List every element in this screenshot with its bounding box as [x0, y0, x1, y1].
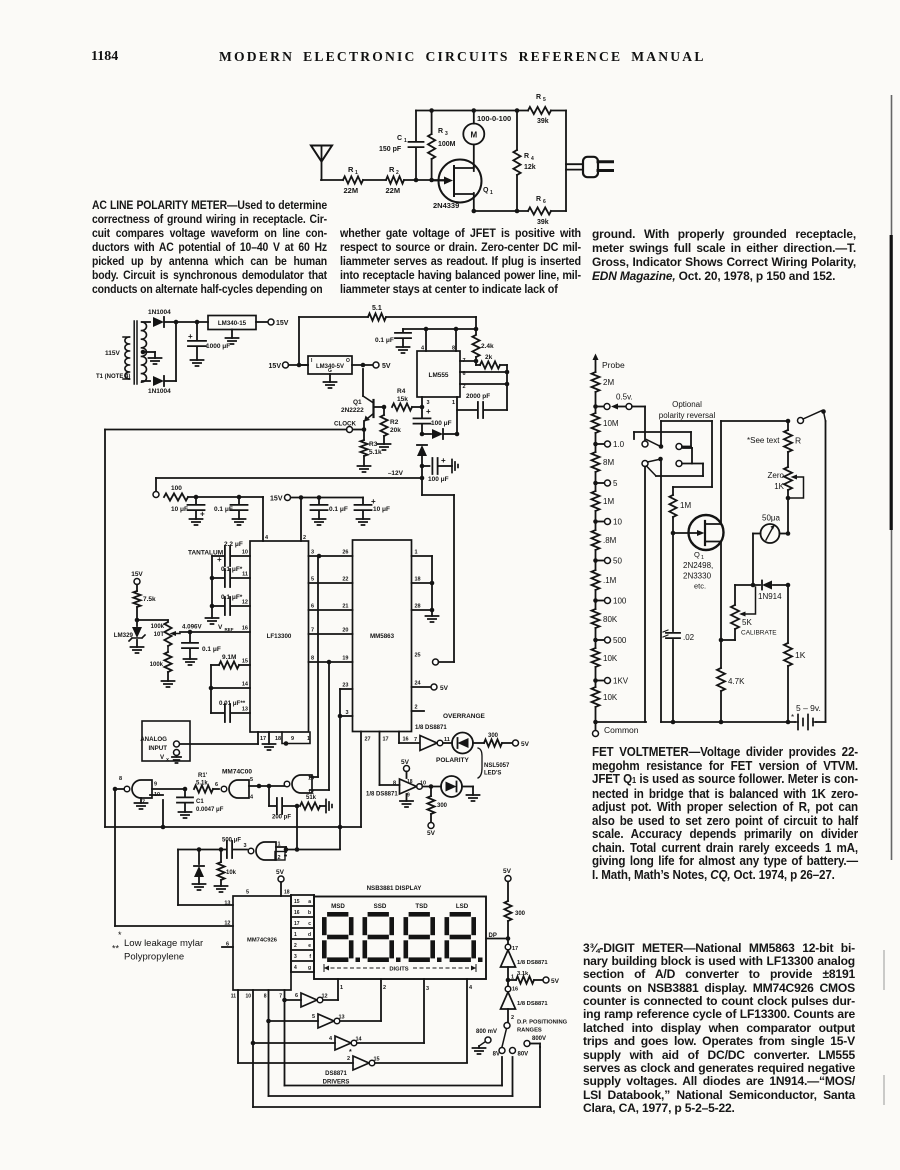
resistor 100 [164, 485, 188, 501]
MM74C926 pin 8 [264, 990, 271, 1096]
wire pin3 [420, 397, 425, 409]
wire [142, 322, 150, 381]
LF13300 pin 8 [311, 656, 314, 662]
wire range bus 1 [285, 1057, 503, 1086]
label overrange [443, 713, 486, 720]
svg-text:1.0: 1.0 [613, 440, 625, 449]
svg-text:Q: Q [694, 550, 700, 559]
svg-text:Q: Q [483, 187, 489, 194]
gate G3 MM74C00 [284, 775, 329, 796]
svg-text:1/8 DS8871: 1/8 DS8871 [366, 792, 398, 798]
svg-text:LM555: LM555 [429, 372, 449, 379]
svg-text:28: 28 [415, 604, 421, 610]
svg-text:26: 26 [342, 550, 348, 556]
digit 4 [445, 912, 483, 962]
diode D3 [420, 429, 460, 439]
resistor R4 15k [392, 388, 422, 411]
svg-text:500: 500 [613, 636, 627, 645]
LF13300 pin 9 [291, 736, 294, 742]
svg-text:0.5v.: 0.5v. [616, 393, 633, 402]
svg-text:10 μF: 10 μF [373, 506, 390, 513]
inverter U6 1/8 DS8871 [366, 779, 426, 807]
svg-text:100: 100 [171, 485, 182, 492]
wire [176, 320, 208, 325]
page number [91, 49, 118, 65]
wire common right [661, 720, 795, 725]
svg-text:d: d [308, 932, 311, 938]
wire pins 23 3 [338, 689, 353, 849]
svg-text:16: 16 [403, 737, 409, 743]
meter 50ua [753, 514, 790, 544]
svg-text:4: 4 [531, 156, 534, 162]
IC U7 MM74C926 [233, 896, 291, 990]
svg-text:5.1: 5.1 [372, 305, 382, 312]
capacitor 0.1uF [375, 329, 411, 353]
svg-text:100 μF: 100 μF [431, 420, 452, 427]
potentiometer 5K calibrate [721, 585, 777, 640]
svg-text:8M: 8M [603, 458, 614, 467]
svg-text:.1M: .1M [603, 576, 617, 585]
svg-text:100M: 100M [438, 141, 456, 148]
svg-text:22M: 22M [344, 186, 359, 195]
wire interconnect [309, 555, 353, 557]
IC U3 LF13300 [250, 535, 309, 732]
svg-text:17: 17 [383, 737, 389, 743]
MM5863 pin 3 [345, 710, 348, 716]
capacitor 0.1uF a [214, 497, 248, 525]
resistor 2k [476, 354, 507, 369]
svg-text:25: 25 [415, 653, 421, 659]
svg-text:100k: 100k [151, 624, 165, 630]
tap 500 [593, 636, 627, 645]
svg-text:18: 18 [284, 890, 290, 896]
capacitor C1 [379, 111, 424, 181]
svg-text:R: R [536, 196, 541, 203]
LF13300 pin 7 [311, 628, 314, 634]
wire pin1 [456, 397, 458, 434]
switch battery [798, 409, 826, 722]
svg-text:10K: 10K [603, 654, 618, 663]
svg-text:MM74C926: MM74C926 [247, 938, 278, 944]
wire clock bus [105, 795, 361, 829]
svg-text:5V: 5V [521, 741, 530, 748]
svg-text:8: 8 [452, 346, 455, 352]
terminal 5V dp [503, 868, 512, 882]
capacitor 1000uF [188, 322, 230, 366]
driver G6 [285, 993, 339, 1007]
svg-text:150 pF: 150 pF [379, 146, 402, 153]
svg-text:16: 16 [242, 626, 248, 632]
terminal 15V [256, 319, 289, 327]
MM74C926 pin 5 [246, 890, 249, 896]
wire [475, 317, 477, 334]
wire chain [595, 392, 597, 722]
digit 3 [404, 912, 442, 962]
wire [423, 784, 442, 789]
svg-text:10T: 10T [154, 632, 165, 638]
svg-text:3: 3 [311, 550, 314, 556]
svg-text:ANALOG: ANALOG [140, 736, 167, 743]
svg-text:4: 4 [265, 535, 269, 541]
svg-text:R3: R3 [369, 441, 378, 448]
svg-text:LF13300: LF13300 [267, 633, 292, 640]
svg-text:10k: 10k [226, 870, 237, 876]
wire range bus 3 [253, 1047, 540, 1107]
MM74C926 pin 7 [279, 990, 287, 1086]
svg-text:16: 16 [294, 910, 300, 916]
MM5863 pin 24 [415, 681, 422, 687]
svg-text:etc.: etc. [694, 582, 706, 591]
wire [565, 111, 567, 212]
svg-text:9: 9 [154, 782, 157, 788]
wire source [719, 542, 724, 669]
LF13300 pin 5 [311, 577, 314, 583]
running head title [219, 49, 706, 65]
LF13300 pin 15 [242, 659, 248, 665]
svg-text:–12V: –12V [388, 470, 404, 477]
capacitor 10uF b [355, 497, 391, 525]
resistor R6 [528, 196, 566, 226]
svg-text:f: f [309, 954, 311, 960]
analog input Vx [140, 721, 190, 763]
segment line c [294, 921, 311, 927]
svg-text:+: + [426, 407, 431, 416]
wire VREF [180, 624, 250, 635]
svg-text:2N4339: 2N4339 [433, 201, 459, 210]
svg-text:15V: 15V [276, 320, 289, 327]
wire [174, 320, 179, 381]
wire ground bus [412, 556, 439, 622]
resistor 10K [592, 687, 618, 707]
segment line e [294, 943, 311, 949]
battery 5-9v [791, 703, 826, 730]
svg-text:.02: .02 [683, 633, 695, 642]
LF13300 pin 1 [307, 736, 310, 742]
wire pin 2 stub [412, 710, 425, 712]
svg-text:5.1k: 5.1k [196, 781, 208, 787]
svg-text:DS8871: DS8871 [325, 1071, 347, 1077]
LF13300 pin 16 [242, 626, 248, 632]
svg-text:50μa: 50μa [762, 514, 781, 523]
svg-text:4: 4 [329, 1036, 333, 1042]
segment line b [294, 910, 311, 916]
svg-text:2: 2 [347, 1056, 350, 1062]
svg-text:10K: 10K [603, 693, 618, 702]
resistor 4.7K [717, 668, 745, 722]
svg-text:2N3330: 2N3330 [683, 572, 712, 581]
svg-text:1N914: 1N914 [758, 592, 782, 601]
svg-text:13: 13 [242, 707, 248, 713]
svg-text:15V: 15V [131, 571, 143, 578]
wire range bus 2 [269, 1057, 513, 1096]
svg-text:1000 μF: 1000 μF [206, 343, 230, 350]
svg-text:g: g [308, 965, 311, 971]
regulator LM340-5V [299, 356, 352, 388]
capacitor 0.01uF** [211, 688, 250, 722]
svg-text:5K: 5K [742, 618, 752, 627]
svg-text:R1': R1' [198, 773, 208, 779]
antenna [311, 146, 332, 181]
svg-text:17: 17 [512, 946, 518, 952]
junction node [327, 660, 332, 665]
MM5863 pin 21 [342, 604, 348, 610]
svg-text:3: 3 [244, 843, 247, 849]
svg-text:100 μF: 100 μF [428, 476, 449, 483]
svg-text:M: M [470, 131, 477, 140]
svg-text:39k: 39k [537, 219, 549, 226]
LF13300 ground pins [263, 732, 311, 750]
svg-text:R: R [536, 94, 541, 101]
svg-text:2000 pF: 2000 pF [466, 393, 490, 400]
driver G4 [253, 1036, 424, 1056]
display pin 4 [467, 979, 473, 1063]
timer U2 LM555 [417, 329, 466, 406]
switch polarity A [634, 407, 712, 488]
tap 50 [593, 557, 622, 566]
svg-text:OVERRANGE: OVERRANGE [443, 713, 486, 720]
switch 0.5v [593, 393, 645, 410]
svg-text:1M: 1M [603, 497, 614, 506]
zener D5 LM329 [114, 618, 145, 653]
label digits arrow [324, 965, 476, 973]
capacitor 2.2uF tantalum [188, 541, 250, 566]
svg-text:12: 12 [242, 600, 248, 606]
MM5863 pin 27 [365, 737, 371, 743]
svg-text:NSB3881 DISPLAY: NSB3881 DISPLAY [367, 885, 423, 892]
svg-text:1K: 1K [795, 650, 806, 660]
svg-text:18: 18 [407, 779, 413, 785]
svg-text:300: 300 [437, 803, 448, 809]
wire [152, 787, 187, 792]
svg-text:+: + [441, 456, 446, 465]
svg-text:2N2498,: 2N2498, [683, 561, 713, 570]
MM5863 pin 22 [342, 577, 348, 583]
svg-text:+: + [371, 497, 376, 506]
capacitor 0.1uF b [311, 498, 348, 526]
resistor 80K [592, 609, 618, 628]
caption column 2 [340, 226, 581, 296]
svg-text:9.1M: 9.1M [222, 654, 236, 661]
svg-text:D.P. POSITIONING: D.P. POSITIONING [517, 1020, 568, 1026]
wire [209, 665, 214, 690]
resistor R1' 5.1k [194, 773, 219, 793]
svg-text:Common: Common [604, 725, 639, 735]
svg-text:RANGES: RANGES [517, 1028, 542, 1034]
wire gate5 node [286, 847, 340, 852]
label polarity [436, 757, 470, 764]
capacitor 2000pF [457, 393, 507, 418]
svg-text:Polypropylene: Polypropylene [124, 952, 184, 963]
wire top rail [416, 108, 528, 113]
digit 2 [363, 912, 401, 962]
svg-text:2.4k: 2.4k [481, 343, 494, 350]
MM74C926 pin 12 [224, 921, 230, 927]
caption column 3 [592, 227, 856, 283]
svg-text:1: 1 [490, 190, 493, 196]
svg-text:5: 5 [246, 890, 249, 896]
MM5863 pin 17 [383, 737, 389, 743]
svg-text:27: 27 [365, 737, 371, 743]
wire meter left [751, 534, 756, 588]
svg-text:14: 14 [356, 1037, 363, 1043]
svg-text:0.1 μF: 0.1 μF [375, 337, 394, 344]
resistor 300 a [484, 733, 530, 748]
svg-text:1: 1 [355, 170, 358, 176]
svg-text:1: 1 [404, 138, 407, 144]
wire pin7 [460, 357, 476, 365]
svg-text:7.5k: 7.5k [143, 596, 156, 603]
svg-text:14: 14 [242, 682, 249, 688]
LF13300 pin 13 [242, 707, 248, 713]
svg-text:15k: 15k [397, 396, 408, 403]
svg-text:1: 1 [294, 932, 297, 938]
driver G2b [238, 1056, 467, 1070]
svg-text:*See text: *See text [747, 436, 780, 445]
svg-text:*: * [118, 930, 122, 940]
svg-text:23: 23 [342, 683, 348, 689]
svg-text:polarity reversal: polarity reversal [659, 411, 716, 420]
svg-text:1: 1 [415, 550, 418, 556]
resistor 9.1M [211, 654, 250, 669]
label footnote mylar [118, 930, 203, 949]
svg-text:2: 2 [415, 705, 418, 711]
svg-text:80K: 80K [603, 615, 618, 624]
svg-text:20k: 20k [390, 427, 401, 434]
resistor R [747, 421, 801, 467]
svg-text:X: X [166, 757, 169, 762]
wire [188, 495, 263, 500]
transistor Q1 2N4339 [432, 160, 493, 212]
svg-text:10: 10 [242, 550, 248, 556]
svg-text:R: R [438, 128, 443, 135]
svg-text:1K: 1K [774, 482, 784, 491]
svg-text:15: 15 [294, 899, 300, 905]
wire [363, 179, 386, 181]
svg-text:R: R [795, 436, 801, 446]
svg-text:REF: REF [225, 627, 234, 632]
svg-text:17: 17 [294, 921, 300, 927]
center tap ground [141, 350, 162, 364]
capacitor 100uF 2 [422, 456, 458, 483]
wire pin4 [262, 497, 264, 541]
label LSD [456, 903, 469, 910]
wire segment ladder [291, 895, 314, 972]
svg-text:7: 7 [279, 994, 282, 1000]
resistor R5 [528, 94, 566, 125]
svg-text:5: 5 [613, 479, 618, 488]
scan edge artifact [884, 95, 892, 1105]
wire pin2 [300, 498, 302, 542]
svg-text:2: 2 [303, 535, 306, 541]
MM5863 pin 25 [415, 653, 421, 659]
gate G2 MM74C00 [221, 777, 254, 801]
wire analog in [180, 732, 258, 744]
resistor R3 [428, 111, 456, 181]
svg-text:R: R [389, 165, 395, 174]
svg-text:11: 11 [242, 572, 248, 578]
LF13300 pin 17 [260, 736, 266, 742]
svg-text:Q1: Q1 [353, 399, 362, 406]
capacitor 200pF [269, 786, 297, 821]
svg-text:a: a [308, 899, 311, 905]
svg-text:39k: 39k [537, 118, 549, 125]
caption AC line polarity meter [92, 198, 327, 296]
label MM74C00 [222, 769, 252, 776]
svg-text:24: 24 [415, 681, 422, 687]
svg-text:1/8 DS8871: 1/8 DS8871 [517, 1001, 548, 1007]
potentiometer zero 1K [768, 467, 804, 534]
svg-text:10 μF: 10 μF [171, 506, 188, 513]
svg-text:5V: 5V [382, 363, 391, 370]
svg-text:0.0047 μF: 0.0047 μF [196, 807, 224, 813]
MM5863 pin 16 [403, 737, 409, 743]
wire pin17 [380, 732, 400, 786]
svg-text:5V: 5V [551, 978, 560, 985]
label NSB3881 display [367, 885, 423, 892]
svg-text:4.096V: 4.096V [182, 624, 202, 631]
svg-text:300: 300 [488, 733, 499, 739]
switch range [493, 1023, 546, 1058]
gate G1 MM74C00 [113, 776, 160, 809]
svg-text:500 μF: 500 μF [222, 838, 241, 844]
wire pin 25 -12V [433, 659, 455, 665]
display pin 3 [424, 979, 429, 1043]
wire drain [721, 419, 790, 524]
svg-text:7: 7 [414, 737, 417, 743]
svg-text:R: R [524, 153, 529, 160]
junction node [317, 554, 322, 559]
LF13300 pin 6 [311, 604, 314, 610]
svg-text:1M: 1M [680, 501, 691, 510]
svg-text:3: 3 [427, 400, 430, 406]
wire common left [596, 721, 647, 723]
svg-text:0.1 μF: 0.1 μF [214, 506, 233, 513]
svg-text:5V: 5V [401, 759, 410, 766]
terminal analog supply [153, 492, 159, 498]
wire interconnect [309, 582, 353, 584]
segment line f [294, 954, 311, 960]
wire clock loop [105, 430, 347, 828]
LF13300 pin 18 [275, 736, 281, 742]
resistor 300 dp [504, 882, 525, 940]
svg-text:SSD: SSD [374, 903, 387, 910]
wire feedback [296, 806, 298, 849]
svg-text:5V: 5V [427, 830, 436, 837]
segment line g [294, 965, 311, 971]
LED overrange [452, 733, 484, 754]
svg-text:22: 22 [342, 577, 348, 583]
wire [297, 317, 302, 367]
MM5863 pin 19 [342, 656, 348, 662]
svg-text:4: 4 [250, 795, 254, 801]
resistor 1M gate [669, 487, 712, 533]
svg-text:1: 1 [340, 985, 343, 991]
wire interconnect [309, 633, 353, 635]
svg-text:6: 6 [543, 199, 546, 205]
svg-text:800V: 800V [532, 1036, 546, 1042]
transistor Q1 2N2498 [671, 515, 724, 591]
svg-text:6: 6 [295, 993, 298, 999]
terminal 5V counter [276, 869, 290, 896]
svg-text:200 pF: 200 pF [272, 815, 291, 821]
display pin 2 [381, 979, 386, 1021]
resistor R1 [343, 165, 363, 195]
MM5863 pin 2 [415, 705, 418, 711]
svg-text:0.1 μF: 0.1 μF [202, 646, 221, 653]
svg-text:16: 16 [512, 987, 518, 993]
label DP [489, 933, 497, 939]
label MSD [331, 903, 345, 910]
